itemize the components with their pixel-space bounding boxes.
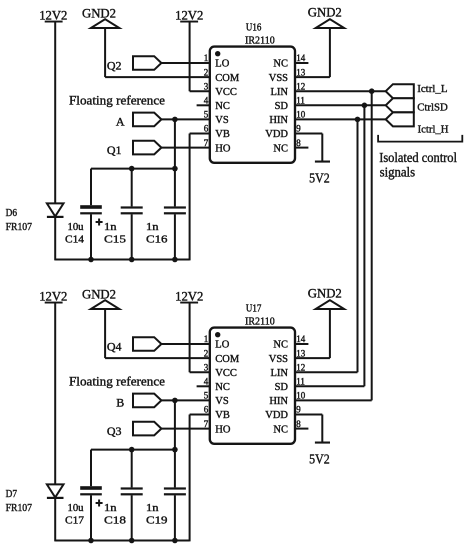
capacitor C17 10u electrolytic — [80, 486, 102, 490]
wire bus Ictrl_H / HIN-LIN vertical — [357, 119, 359, 372]
wire pin 6 VB left — [190, 133, 211, 135]
svg-text:11: 11 — [296, 377, 305, 387]
svg-text:8: 8 — [296, 138, 301, 148]
node rail junction C3 — [172, 538, 178, 544]
svg-text:Floating reference: Floating reference — [69, 373, 165, 388]
svg-text:Isolated control: Isolated control — [379, 150, 457, 165]
svg-text:NC: NC — [273, 143, 288, 154]
capacitor C18 1n — [131, 450, 133, 488]
svg-text:4: 4 — [204, 96, 209, 106]
IC U17 IR2110 body — [210, 328, 295, 444]
svg-text:12V2: 12V2 — [175, 8, 203, 23]
svg-text:SD: SD — [275, 382, 289, 393]
wire U17 LIN to bus — [295, 371, 358, 373]
svg-text:B: B — [116, 396, 124, 410]
svg-text:1: 1 — [204, 334, 209, 344]
svg-text:6: 6 — [204, 124, 209, 134]
wire VSS to GND2 — [295, 76, 330, 78]
svg-text:Q4: Q4 — [107, 339, 122, 353]
wire bus Ictrl_L / LIN-HIN vertical — [371, 91, 373, 400]
svg-text:13: 13 — [296, 67, 306, 77]
svg-text:VSS: VSS — [269, 354, 288, 365]
svg-text:D6: D6 — [6, 208, 17, 219]
svg-text:C14: C14 — [65, 233, 85, 245]
svg-text:1: 1 — [204, 53, 209, 63]
node rail junction C1 — [88, 257, 94, 263]
svg-text:VCC: VCC — [215, 87, 237, 98]
svg-text:D7: D7 — [6, 489, 17, 500]
node rail junction C1 — [88, 538, 94, 544]
wire D7 cathode to rail — [54, 499, 56, 541]
svg-text:8: 8 — [296, 419, 301, 429]
svg-text:VDD: VDD — [265, 410, 288, 421]
svg-text:12: 12 — [296, 362, 305, 372]
node LIN junction — [369, 88, 375, 94]
wire pin 14 NC stub — [295, 62, 309, 64]
wire VB down to rail — [189, 134, 191, 261]
wire GND2 to pin 2 COM — [105, 76, 210, 78]
wire 12V2 to diode D6 anode — [54, 23, 56, 204]
wire LIN to Ictrl_L — [295, 90, 386, 92]
svg-text:HO: HO — [215, 424, 231, 435]
power 5V2 terminal bar — [315, 442, 330, 444]
svg-text:14: 14 — [296, 53, 306, 63]
connector CtrlSD — [386, 98, 414, 112]
polarity + mark C17 — [96, 502, 103, 504]
wire VB rail — [55, 259, 189, 261]
svg-text:NC: NC — [215, 101, 230, 112]
svg-text:10: 10 — [296, 391, 306, 401]
svg-text:Q2: Q2 — [107, 58, 122, 72]
svg-text:NC: NC — [273, 59, 288, 70]
svg-text:VB: VB — [215, 410, 230, 421]
svg-text:4: 4 — [204, 377, 209, 387]
svg-text:HO: HO — [215, 143, 231, 154]
svg-text:NC: NC — [273, 424, 288, 435]
svg-text:9: 9 — [296, 405, 301, 415]
wire VS down to capacitors — [174, 119, 176, 168]
wire D6 cathode to rail — [54, 218, 56, 260]
wire GND2 down to VSS — [329, 310, 331, 358]
node VS junction — [172, 117, 178, 123]
node cap bus junction VS — [172, 447, 178, 453]
capacitor C15 1n — [131, 169, 133, 207]
svg-text:VSS: VSS — [269, 73, 288, 84]
svg-text:6: 6 — [204, 405, 209, 415]
wire VDD down — [321, 134, 323, 162]
wire Q2 to LO — [161, 62, 210, 64]
wire bus CtrlSD vertical — [363, 105, 365, 386]
wire to pin 3 VCC — [190, 90, 211, 92]
connector Ictrl_L — [386, 84, 414, 98]
svg-text:SD: SD — [275, 101, 289, 112]
svg-text:LO: LO — [215, 340, 229, 351]
svg-text:COM: COM — [215, 354, 240, 365]
node cap bus junction C2 — [129, 447, 135, 453]
svg-text:10u: 10u — [68, 221, 84, 233]
wire 12V2 down — [189, 304, 191, 373]
node rail junction C3 — [172, 257, 178, 263]
power 5V2 terminal bar — [315, 161, 330, 163]
svg-text:VDD: VDD — [265, 129, 288, 140]
wire Q1 to HO — [161, 147, 210, 149]
svg-text:Q3: Q3 — [107, 424, 122, 438]
wire A to VS — [161, 118, 210, 120]
svg-text:U17: U17 — [246, 302, 262, 314]
svg-text:Q1: Q1 — [107, 143, 122, 157]
svg-text:GND2: GND2 — [82, 287, 116, 302]
wire VB rail — [55, 540, 189, 542]
svg-text:10u: 10u — [68, 502, 84, 514]
capacitor C16 1n — [174, 169, 176, 207]
svg-text:9: 9 — [296, 124, 301, 134]
svg-text:5V2: 5V2 — [309, 452, 330, 467]
svg-text:VCC: VCC — [215, 368, 237, 379]
svg-text:12: 12 — [296, 81, 305, 91]
wire to pin 3 VCC — [190, 371, 211, 373]
node SD junction — [362, 103, 368, 109]
svg-text:VS: VS — [215, 115, 229, 126]
svg-text:FR107: FR107 — [6, 222, 32, 233]
wire pin 14 NC stub — [295, 343, 309, 345]
capacitor C14 10u electrolytic — [80, 205, 102, 209]
connector Ictrl_H — [386, 112, 414, 126]
svg-text:2: 2 — [204, 348, 209, 358]
svg-text:1n: 1n — [146, 502, 159, 514]
svg-text:C16: C16 — [146, 233, 168, 245]
svg-text:1n: 1n — [104, 221, 117, 233]
wire 12V2 to diode D7 anode — [54, 304, 56, 485]
svg-text:5V2: 5V2 — [309, 171, 330, 186]
wire GND2 down — [104, 310, 106, 358]
wire GND2 to pin 2 COM — [105, 357, 210, 359]
wire pin 6 VB left — [190, 414, 211, 416]
node cap bus junction C2 — [129, 166, 135, 172]
wire pin 4 NC stub — [197, 385, 211, 387]
bracket isolated signals — [378, 135, 462, 142]
wire B to VS — [161, 399, 210, 401]
svg-text:5: 5 — [204, 110, 209, 120]
wire 12V2 down — [189, 23, 191, 92]
svg-text:7: 7 — [204, 138, 209, 148]
node VS junction — [172, 398, 178, 404]
svg-text:11: 11 — [296, 96, 305, 106]
svg-text:12V2: 12V2 — [39, 289, 67, 304]
svg-text:C15: C15 — [104, 233, 127, 245]
wire U17 SD to bus — [295, 385, 365, 387]
svg-text:CtrlSD: CtrlSD — [417, 102, 448, 114]
wire VS down to capacitors — [174, 400, 176, 449]
capacitor C19 1n — [174, 450, 176, 488]
svg-text:7: 7 — [204, 419, 209, 429]
wire HIN to Ictrl_H — [295, 118, 386, 120]
node rail junction C2 — [129, 257, 135, 263]
svg-text:C17: C17 — [65, 514, 85, 526]
wire VDD down — [321, 415, 323, 443]
svg-text:5: 5 — [204, 391, 209, 401]
svg-text:3: 3 — [204, 81, 209, 91]
svg-text:1n: 1n — [146, 221, 159, 233]
node cap bus left corner — [90, 169, 92, 206]
svg-text:A: A — [116, 115, 125, 129]
wire pin 9 VDD right — [295, 414, 323, 416]
svg-text:C18: C18 — [104, 514, 127, 526]
svg-text:13: 13 — [296, 348, 306, 358]
wire GND2 down — [104, 29, 106, 77]
node HIN junction — [355, 117, 361, 123]
svg-text:IR2110: IR2110 — [245, 316, 275, 328]
svg-text:IR2110: IR2110 — [245, 35, 275, 47]
svg-text:NC: NC — [273, 340, 288, 351]
svg-text:LIN: LIN — [271, 368, 289, 379]
wire SD to CtrlSD — [295, 104, 386, 106]
wire Q4 to LO — [161, 343, 210, 345]
svg-text:1n: 1n — [104, 502, 117, 514]
svg-text:HIN: HIN — [269, 396, 288, 407]
node cap bus left corner — [90, 450, 92, 487]
wire U17 HIN to bus — [295, 399, 372, 401]
svg-text:LO: LO — [215, 59, 229, 70]
svg-text:12V2: 12V2 — [175, 289, 203, 304]
wire pin 4 NC stub — [197, 104, 211, 106]
svg-text:COM: COM — [215, 73, 240, 84]
svg-text:GND2: GND2 — [308, 286, 342, 301]
svg-text:NC: NC — [215, 382, 230, 393]
svg-text:signals: signals — [380, 165, 416, 180]
svg-text:U16: U16 — [246, 21, 262, 33]
svg-text:12V2: 12V2 — [39, 8, 67, 23]
node cap bus junction VS — [172, 166, 178, 172]
svg-text:Ictrl_H: Ictrl_H — [418, 124, 449, 136]
wire GND2 down to VSS — [329, 29, 331, 77]
wire pin 8 NC stub — [295, 428, 309, 430]
polarity + mark C14 — [96, 221, 103, 223]
svg-text:10: 10 — [296, 110, 306, 120]
svg-text:HIN: HIN — [269, 115, 288, 126]
wire VSS to GND2 — [295, 357, 330, 359]
wire capacitor top bus — [91, 449, 175, 451]
svg-text:C19: C19 — [146, 514, 168, 526]
svg-text:Floating reference: Floating reference — [69, 92, 165, 107]
svg-text:GND2: GND2 — [82, 6, 116, 21]
svg-text:LIN: LIN — [271, 87, 289, 98]
svg-text:FR107: FR107 — [6, 503, 32, 514]
svg-text:14: 14 — [296, 334, 306, 344]
wire capacitor top bus — [91, 168, 175, 170]
node rail junction C2 — [129, 538, 135, 544]
diode D7 FR107 — [47, 484, 64, 497]
wire pin 9 VDD right — [295, 133, 323, 135]
svg-text:VS: VS — [215, 396, 229, 407]
svg-text:GND2: GND2 — [308, 5, 342, 20]
svg-text:VB: VB — [215, 129, 230, 140]
wire Q3 to HO — [161, 428, 210, 430]
svg-text:3: 3 — [204, 362, 209, 372]
svg-text:2: 2 — [204, 67, 209, 77]
wire VB down to rail — [189, 415, 191, 542]
wire pin 8 NC stub — [295, 147, 309, 149]
diode D6 FR107 — [47, 203, 64, 216]
IC U16 IR2110 body — [210, 47, 295, 163]
svg-text:Ictrl_L: Ictrl_L — [417, 83, 448, 95]
